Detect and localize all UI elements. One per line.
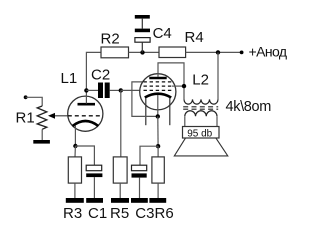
resistor R2 [101, 47, 129, 58]
terminal +Anod [240, 51, 244, 55]
node transformer feed junction [216, 50, 220, 54]
svg-text:R3: R3 [63, 205, 82, 222]
wire C1 to ground [93, 177, 95, 198]
tube L2 cathode [145, 94, 171, 98]
wire C2 to grid node [110, 89, 121, 91]
tube L2 grid g1 [144, 89, 173, 91]
svg-text:95 db: 95 db [187, 128, 212, 139]
wire cathode down [157, 116, 159, 146]
svg-text:C4: C4 [153, 25, 172, 42]
wire grid node down to R5 [120, 90, 122, 156]
capacitor C1 [86, 165, 102, 177]
transformer secondary [185, 111, 217, 116]
wire to R3 [74, 146, 76, 157]
wire secondary right lead [216, 116, 218, 126]
wire B+ down to transformer [217, 52, 219, 99]
wire anode up to R2 [86, 52, 101, 90]
wire heater stub left [145, 98, 147, 125]
wire branch to C3 [140, 146, 158, 165]
wire g2 lead [172, 85, 184, 87]
capacitor C2 [98, 83, 110, 99]
ground above C4 [135, 15, 150, 19]
wire cathode lead L2 [157, 95, 159, 116]
svg-text:R4: R4 [185, 29, 204, 46]
tube L1 grid [68, 115, 103, 117]
node grid L2 junction [119, 88, 123, 92]
resistor R5 [113, 157, 127, 183]
wiper arrow of R1 [48, 113, 68, 119]
input terminal [24, 95, 28, 99]
wire to R6 [157, 146, 159, 157]
resistor R3 [68, 157, 81, 183]
svg-text:R5: R5 [110, 205, 129, 222]
node cathode L1 junction [73, 144, 77, 148]
svg-text:C3: C3 [135, 205, 154, 222]
wire anode L1 to C2 [86, 89, 98, 91]
wire R3 to ground [74, 183, 76, 198]
ground under R3 [66, 198, 84, 203]
speaker cone [174, 138, 228, 156]
svg-text:L1: L1 [61, 70, 78, 87]
speaker box [183, 127, 220, 139]
svg-text:C1: C1 [88, 205, 107, 222]
svg-text:+Анод: +Анод [249, 44, 287, 60]
resistor R4 [159, 47, 186, 58]
node cathode lower junction [156, 144, 160, 148]
node anode L1 junction [84, 88, 88, 92]
wire grid node to tube L2 [121, 89, 140, 91]
tube L2 envelope [140, 74, 176, 110]
ground under R6 [149, 198, 166, 203]
wire branch to C1 [75, 146, 94, 165]
transformer primary [184, 99, 218, 104]
wire g3 to cathode loop [132, 82, 158, 117]
wire R4 to anode terminal [186, 51, 242, 53]
svg-text:4k\8om: 4k\8om [226, 99, 272, 115]
tube L2 grid g3 [144, 81, 173, 83]
node C4 junction [140, 50, 144, 54]
wire R6 to ground [157, 183, 159, 198]
wire anode L2 to transformer [158, 63, 184, 100]
tube L1 anode [78, 103, 96, 106]
svg-text:R2: R2 [101, 31, 120, 48]
wire [26, 97, 43, 106]
wire secondary left lead [184, 116, 186, 126]
wire heater stub right [169, 98, 171, 125]
resistor R6 [152, 157, 164, 183]
wire cathode lead L1 [74, 126, 76, 146]
svg-text:C2: C2 [91, 67, 110, 84]
tube L1 envelope [68, 96, 103, 131]
tube L2 grid g2 [144, 85, 173, 87]
svg-text:R6: R6 [155, 205, 174, 222]
wire R5 to ground [119, 183, 121, 198]
svg-text:L2: L2 [192, 72, 209, 89]
node g2 tie [182, 84, 186, 88]
ground [33, 140, 50, 144]
node cathode L2 junction [156, 114, 160, 118]
tube L1 cathode [73, 121, 99, 126]
ground under R5 [111, 198, 129, 203]
svg-text:R1: R1 [16, 110, 35, 127]
wire [41, 129, 43, 140]
wire C3 to ground [139, 178, 141, 198]
capacitor C4 [135, 18, 150, 53]
wire R2 to R4 [129, 51, 160, 53]
transformer core [183, 107, 218, 109]
wire anode lead L1 [85, 90, 87, 103]
capacitor C3 [132, 165, 147, 177]
ground under C1 [86, 198, 103, 203]
ground under C3 [131, 198, 148, 203]
tube L2 anode [149, 77, 166, 80]
potentiometer R1 [37, 106, 47, 129]
